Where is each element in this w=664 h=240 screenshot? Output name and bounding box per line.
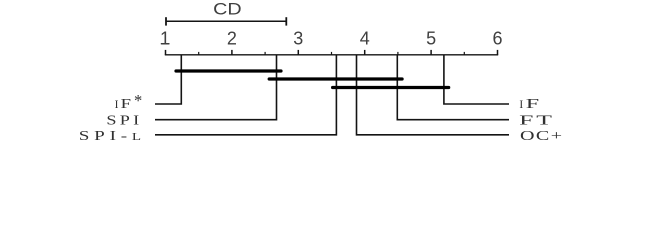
clique bar 2 bbox=[269, 77, 402, 80]
svg-text:5: 5 bbox=[426, 28, 436, 48]
svg-text:3: 3 bbox=[293, 28, 303, 48]
svg-text:4: 4 bbox=[360, 28, 370, 48]
axis line bbox=[165, 54, 498, 56]
svg-text:IF: IF bbox=[519, 97, 539, 112]
method lines bbox=[155, 55, 509, 135]
svg-text:FT: FT bbox=[519, 114, 555, 129]
svg-text:2: 2 bbox=[227, 28, 237, 48]
SPI line bbox=[155, 55, 277, 120]
svg-text:SPI-L: SPI-L bbox=[79, 129, 146, 144]
SPI-L line bbox=[155, 55, 336, 135]
FT line bbox=[397, 55, 509, 120]
svg-text:SPI: SPI bbox=[106, 114, 142, 129]
svg-text:1: 1 bbox=[160, 28, 170, 48]
clique bar 1 bbox=[176, 69, 281, 72]
clique bar 3 bbox=[333, 86, 449, 89]
iF line bbox=[444, 55, 509, 104]
CD bracket bbox=[166, 17, 287, 25]
minor ticks bbox=[199, 52, 465, 55]
svg-text:OC+: OC+ bbox=[520, 129, 564, 144]
OC+ line bbox=[357, 55, 510, 135]
svg-text:CD: CD bbox=[213, 0, 242, 18]
iF* line bbox=[155, 55, 181, 104]
major ticks bbox=[166, 50, 498, 55]
svg-text:6: 6 bbox=[492, 28, 502, 48]
